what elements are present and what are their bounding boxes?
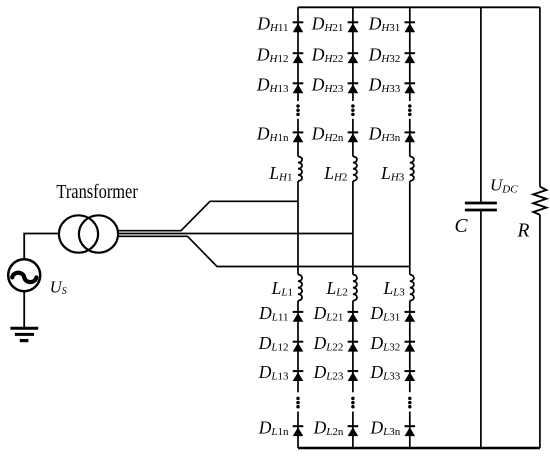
svg-text:C: C: [455, 216, 469, 237]
svg-text:R: R: [517, 221, 530, 242]
svg-text:Transformer: Transformer: [56, 181, 138, 203]
